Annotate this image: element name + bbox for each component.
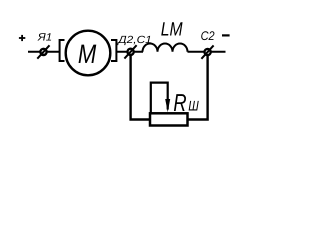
terminal С2 (clamp symbol) bbox=[201, 45, 213, 58]
motor M1 circle bbox=[66, 31, 111, 76]
svg-text:R: R bbox=[173, 90, 186, 117]
wire right drop from С2 terminal down to rheostat bbox=[188, 52, 208, 120]
node + (positive supply terminal) bbox=[19, 35, 25, 41]
tap wire (loop from resistor end up and over to slider) bbox=[151, 83, 168, 114]
node − (negative supply terminal) bbox=[222, 34, 230, 36]
tap arrow head (slider onto resistor) bbox=[165, 99, 170, 112]
svg-text:С2: С2 bbox=[201, 29, 215, 43]
svg-text:М: М bbox=[78, 39, 97, 69]
motor right brush bbox=[111, 40, 116, 61]
inductor LM (field winding, 3 humps) bbox=[143, 43, 188, 51]
svg-text:Ш: Ш bbox=[188, 98, 199, 114]
wire from coil end to right end bbox=[188, 51, 226, 53]
terminal Я1 (clamp symbol) bbox=[37, 45, 49, 58]
wire left drop from Д2,С1 junction down to rheostat bbox=[131, 52, 149, 120]
wire from motor right brush to coil start bbox=[116, 51, 143, 53]
wire from + to motor brush bbox=[28, 51, 60, 53]
resistor Rш (shunt rheostat body) bbox=[150, 113, 188, 125]
motor left brush bbox=[60, 40, 65, 61]
svg-text:LМ: LМ bbox=[161, 20, 183, 41]
svg-text:Я1: Я1 bbox=[37, 32, 52, 44]
terminal Д2,С1 (clamp symbol) bbox=[124, 45, 136, 58]
